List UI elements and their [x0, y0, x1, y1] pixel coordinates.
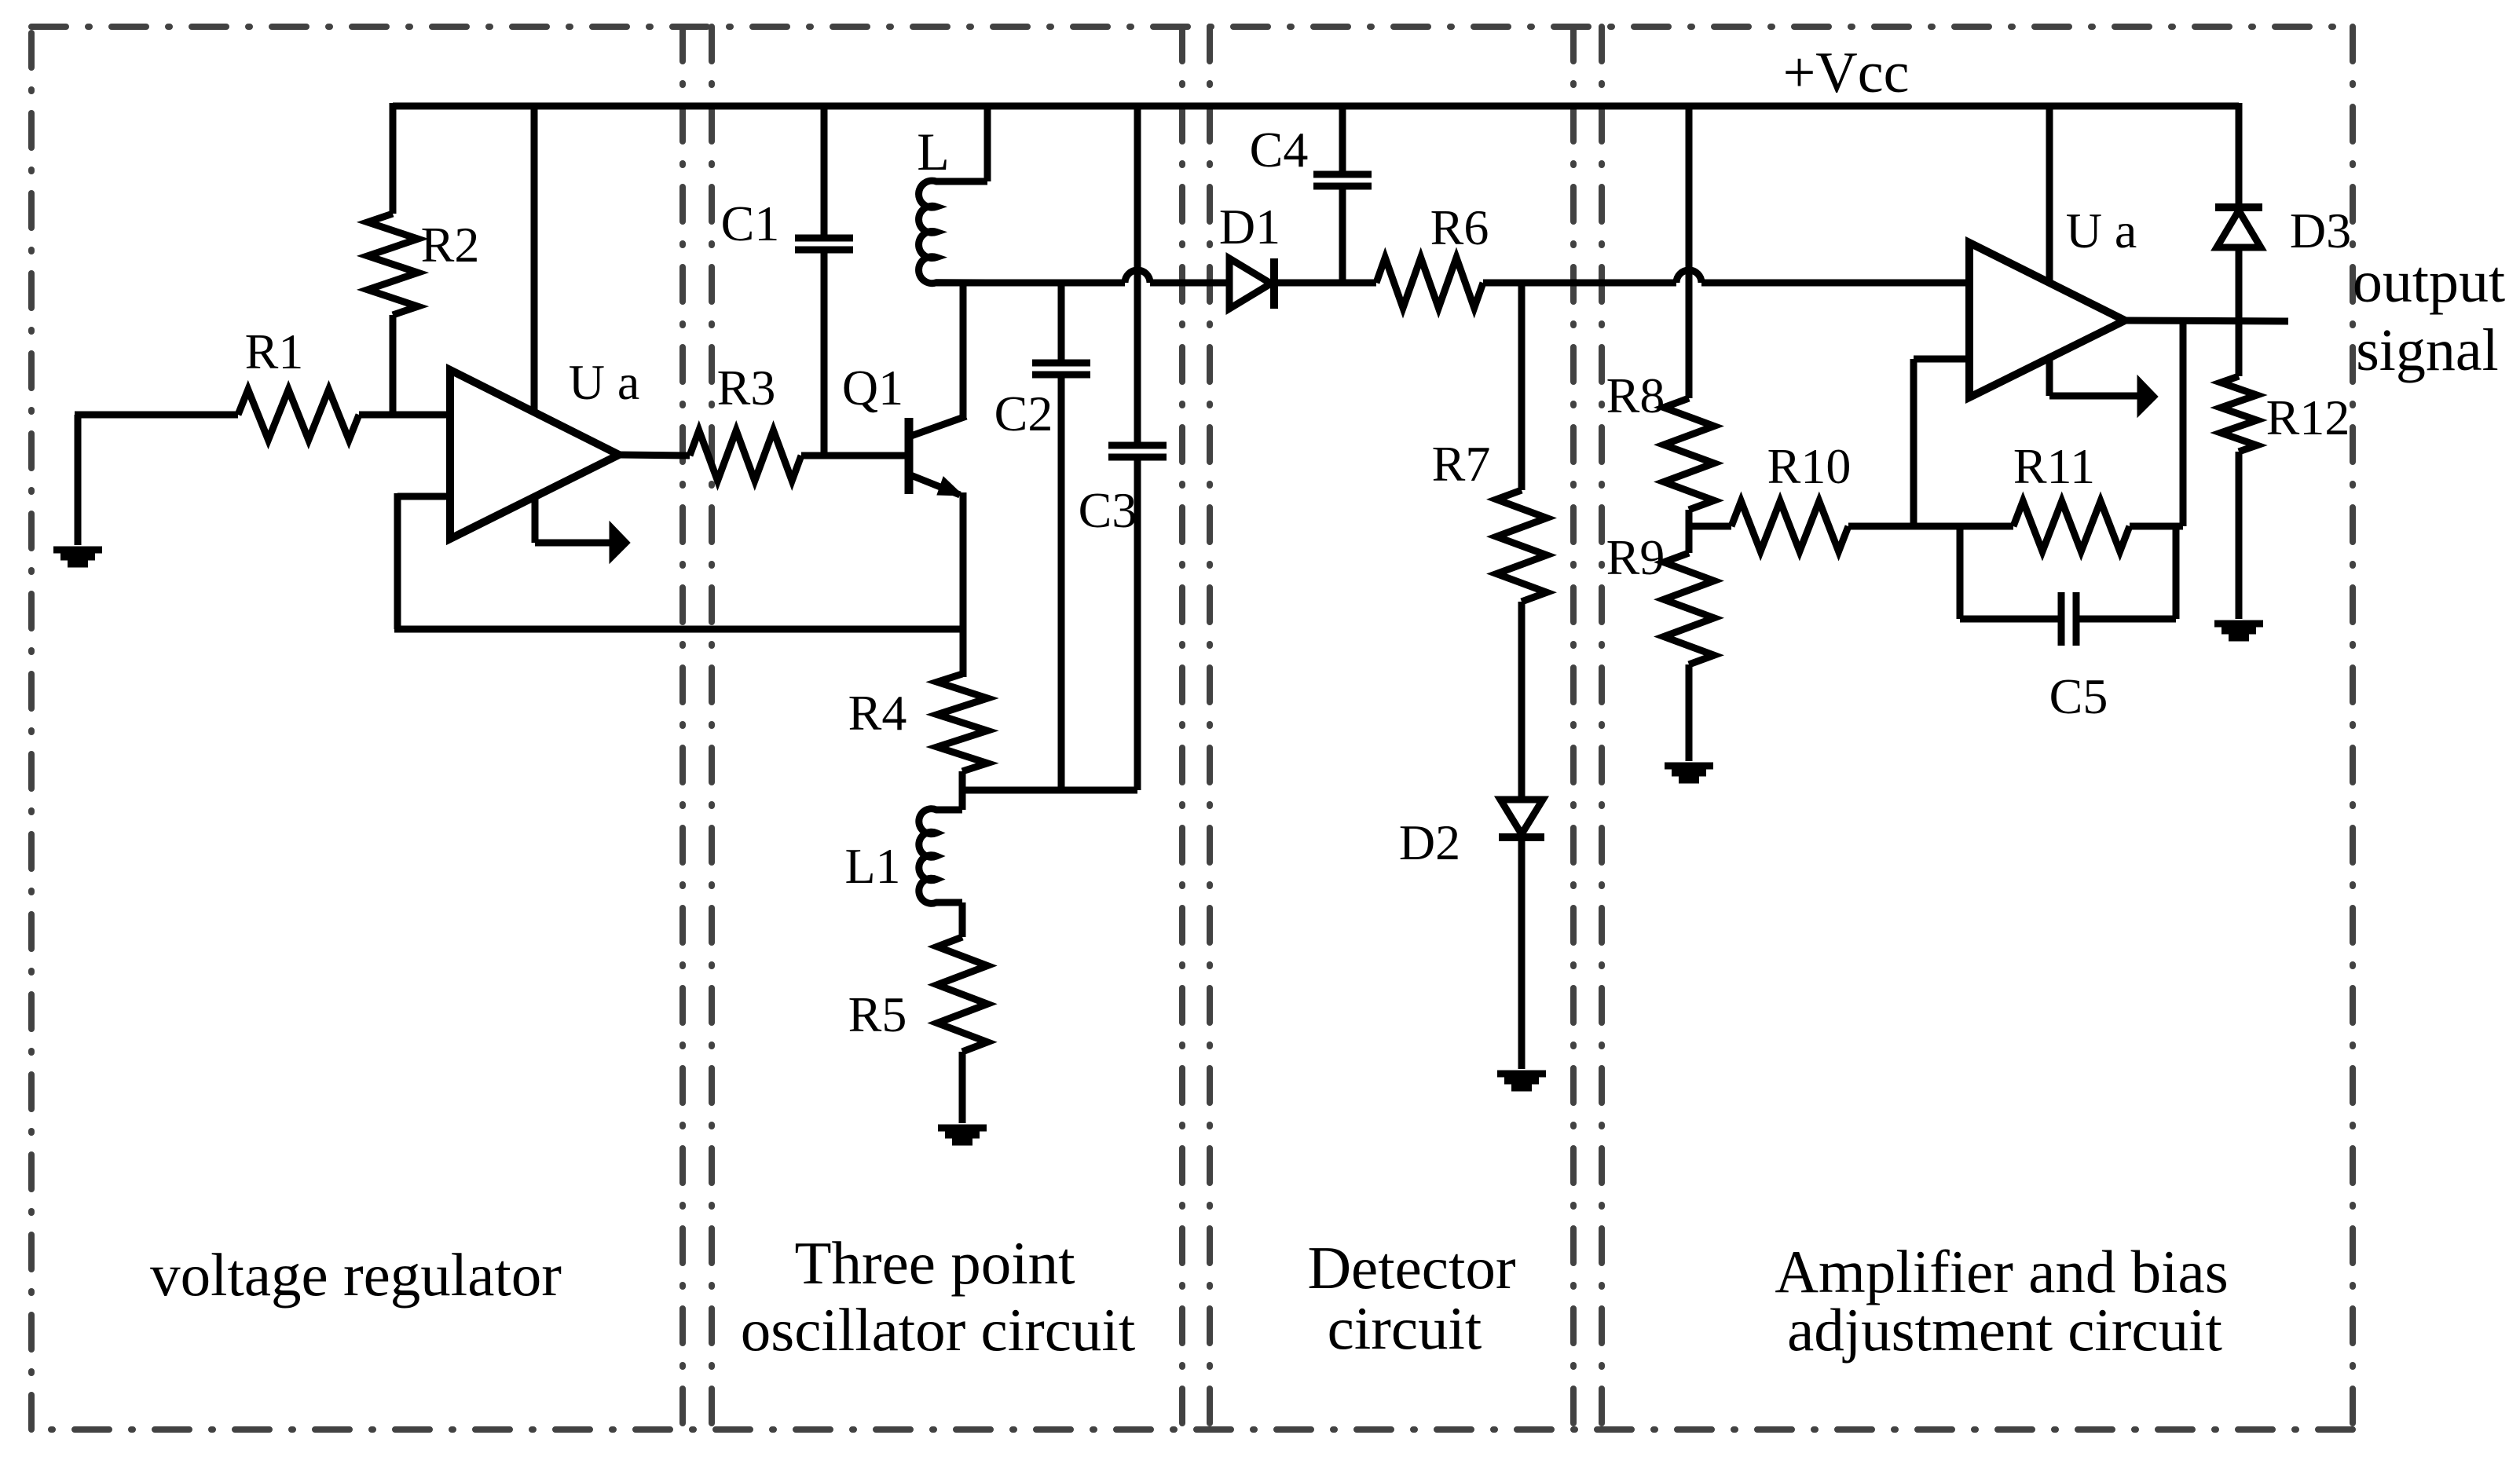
wire R2 bottom to R1 node	[390, 315, 397, 418]
svg-text:D2: D2	[1399, 815, 1460, 870]
op-amp U1	[450, 370, 619, 539]
wire D2 to ground	[1518, 837, 1526, 1069]
capacitor C2 top wire	[1058, 283, 1065, 363]
wire C3 bottom	[1134, 457, 1141, 790]
op-amp U1 power wire	[531, 106, 538, 412]
wire R7 to D2	[1518, 602, 1526, 800]
svg-text:D3: D3	[2290, 203, 2351, 258]
wire R7 top	[1518, 283, 1526, 490]
wire C4 bottom	[1339, 186, 1346, 283]
wire D3 top from rail	[2236, 103, 2243, 207]
wire C2 bottom	[1058, 375, 1065, 790]
op-amp U1 bias pin wire	[535, 497, 611, 543]
wire R12 to ground	[2236, 452, 2243, 619]
ground	[2214, 624, 2263, 638]
label R12	[2266, 390, 2350, 445]
svg-text:R5: R5	[848, 987, 907, 1042]
svg-text:L: L	[917, 122, 950, 181]
label R3	[717, 360, 776, 416]
wire tank to D1 with hop over C3	[936, 270, 1229, 283]
label R5	[848, 987, 907, 1042]
resistor R4	[937, 674, 987, 771]
svg-text:R4: R4	[848, 685, 907, 741]
label U a	[2066, 203, 2137, 258]
capacitor C5	[2061, 592, 2076, 646]
diode D1	[1229, 258, 1274, 309]
wire op-amp U1 output	[619, 455, 690, 456]
resistor R8	[1664, 398, 1714, 510]
capacitor C5 right wire	[2076, 526, 2176, 619]
label U a	[569, 354, 640, 410]
wire feedback down	[394, 493, 401, 629]
svg-text:L1: L1	[844, 838, 900, 894]
node wire C2 C3 bottom	[959, 787, 1137, 794]
label C4	[1250, 122, 1309, 178]
wire R10 to R11 node	[1848, 523, 1917, 530]
capacitor C1 top wire	[821, 106, 828, 238]
op-amp U2 power wire	[2046, 106, 2053, 283]
resistor R1	[238, 390, 359, 440]
svg-text:voltage regulator: voltage regulator	[150, 1241, 562, 1309]
ground	[1497, 1074, 1546, 1088]
svg-text:R12: R12	[2266, 390, 2350, 445]
transistor Q1 emitter arrow	[937, 477, 963, 496]
label three point oscillator circuit	[741, 1229, 1135, 1364]
wire R3 to Q1 base	[801, 452, 905, 459]
diode D2	[1499, 800, 1544, 837]
op-amp U1 bias arrow	[610, 522, 630, 563]
svg-text:R3: R3	[717, 360, 776, 416]
resistor R3	[690, 430, 801, 481]
svg-text:adjustment circuit: adjustment circuit	[1787, 1296, 2222, 1364]
svg-text:R1: R1	[245, 324, 304, 379]
op-amp U2 inverting input stub	[1914, 356, 1969, 363]
+Vcc rail wire	[393, 103, 2239, 110]
svg-text:C1: C1	[721, 196, 780, 251]
capacitor C3 top wire	[1134, 106, 1141, 445]
section divider between detector and amplifier	[1573, 27, 1602, 1430]
wire Q1 emitter down	[960, 492, 967, 677]
svg-text:R7: R7	[1432, 436, 1491, 492]
wire to ground left	[75, 415, 82, 545]
ground	[938, 1128, 987, 1142]
inductor L	[919, 181, 987, 284]
capacitor C1	[795, 238, 853, 250]
transistor Q1	[909, 416, 966, 495]
wire R8 R9 junction	[1686, 510, 1693, 553]
label D1	[1219, 199, 1280, 254]
resistor R5	[937, 937, 987, 1052]
label voltage regulator	[150, 1241, 562, 1309]
svg-text:Detector: Detector	[1307, 1234, 1515, 1301]
svg-text:output: output	[2353, 249, 2505, 315]
label R2	[421, 217, 480, 273]
wire D1 to R6 with C4 tap	[1274, 280, 1376, 287]
+Vcc label	[1783, 41, 1910, 105]
diode D3	[2215, 207, 2262, 247]
wire R8 top from rail	[1686, 106, 1693, 398]
label R4	[848, 685, 907, 741]
label R7	[1432, 436, 1491, 492]
label R10	[1767, 438, 1852, 494]
section divider between voltage regulator and oscillator	[683, 27, 712, 1430]
op-amp U2	[1969, 243, 2125, 397]
capacitor C4 top wire	[1339, 106, 1346, 174]
svg-text:signal: signal	[2356, 317, 2499, 383]
wire R1 input left	[75, 412, 238, 415]
label C3	[1079, 482, 1137, 538]
svg-text:C5: C5	[2049, 668, 2108, 724]
inductor L feed wire	[984, 106, 991, 181]
wire D3 to output node	[2236, 247, 2243, 376]
label C5	[2049, 668, 2108, 724]
resistor R9	[1664, 553, 1714, 664]
label amplifier and bias adjustment circuit	[1775, 1238, 2228, 1364]
wire L1 to R5	[959, 902, 966, 937]
svg-text:U a: U a	[569, 354, 640, 410]
op-amp U1 inverting input stub	[397, 493, 450, 500]
svg-text:circuit: circuit	[1328, 1294, 1482, 1362]
wire R9 to ground	[1686, 664, 1693, 761]
wire op-amp U2 output	[2125, 320, 2288, 321]
wire R1 to op-amp input	[359, 412, 450, 419]
inductor L1	[919, 809, 962, 904]
svg-text:R2: R2	[421, 217, 480, 273]
svg-text:C3: C3	[1079, 482, 1137, 538]
capacitor C5 left wire	[1960, 526, 2061, 619]
label L1	[844, 838, 900, 894]
svg-text:C4: C4	[1250, 122, 1309, 178]
capacitor C2	[1032, 363, 1090, 375]
wire inverting input riser	[1910, 359, 1917, 526]
wire R2 top from rail	[390, 103, 397, 214]
wire R11 right lead	[2130, 523, 2183, 530]
label C1	[721, 196, 780, 251]
label D2	[1399, 815, 1460, 870]
svg-text:Three point: Three point	[794, 1229, 1075, 1297]
capacitor C3	[1108, 445, 1167, 457]
section divider between oscillator and detector	[1182, 27, 1210, 1430]
wire junction to R10	[1689, 523, 1731, 530]
label output signal	[2353, 249, 2505, 383]
ground	[1665, 766, 1713, 780]
wire R4 to L1	[959, 771, 966, 810]
resistor R11	[2013, 501, 2130, 551]
svg-text:R11: R11	[2013, 438, 2095, 494]
op-amp U2 bias arrow	[2137, 375, 2158, 417]
svg-text:R6: R6	[1430, 200, 1489, 255]
wire R11 to output riser	[2180, 321, 2187, 526]
wire R6 to op-amp with hop over R8	[1483, 270, 1969, 283]
label R11	[2013, 438, 2095, 494]
svg-text:R9: R9	[1606, 529, 1665, 585]
wire R5 to ground	[959, 1052, 966, 1123]
label D3	[2290, 203, 2351, 258]
op-amp U2 bias pin wire	[2049, 358, 2139, 396]
ground	[53, 550, 102, 564]
resistor R2	[368, 214, 418, 315]
wire Q1 collector	[960, 283, 967, 417]
svg-text:oscillator circuit: oscillator circuit	[741, 1296, 1135, 1364]
label L	[917, 122, 950, 181]
resistor R10	[1731, 501, 1848, 551]
label R8	[1606, 368, 1665, 423]
label R9	[1606, 529, 1665, 585]
resistor R7	[1496, 490, 1547, 602]
resistor R12	[2221, 376, 2257, 452]
wire R11 left lead	[1914, 523, 2013, 530]
label Q1	[842, 360, 903, 416]
label C2	[994, 386, 1053, 441]
label R6	[1430, 200, 1489, 255]
svg-text:R10: R10	[1767, 438, 1852, 494]
svg-text:C2: C2	[994, 386, 1053, 441]
svg-text:+Vcc: +Vcc	[1783, 41, 1910, 105]
svg-text:U a: U a	[2066, 203, 2137, 258]
svg-text:R8: R8	[1606, 368, 1665, 423]
wire C1 bottom	[821, 250, 828, 456]
resistor R6	[1376, 258, 1483, 308]
label detector circuit	[1307, 1234, 1515, 1362]
label R1	[245, 324, 304, 379]
svg-text:Q1: Q1	[842, 360, 903, 416]
wire feedback to emitter node	[394, 626, 963, 633]
svg-text:D1: D1	[1219, 199, 1280, 254]
capacitor C4	[1313, 174, 1372, 186]
